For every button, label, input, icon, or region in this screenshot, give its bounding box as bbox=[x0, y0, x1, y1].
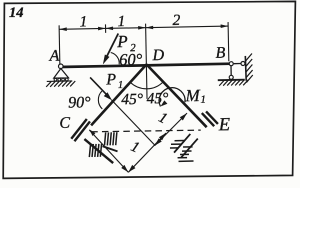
svg-text:60°: 60° bbox=[119, 50, 143, 69]
moment M1 arc bbox=[159, 87, 185, 106]
svg-text:B: B bbox=[215, 45, 225, 62]
dim arrow right at B tick bbox=[221, 24, 229, 28]
dim arrow right at D tick bbox=[138, 26, 146, 30]
svg-text:P: P bbox=[116, 32, 128, 51]
support B vertical link bbox=[230, 66, 232, 75]
svg-text:1: 1 bbox=[200, 94, 206, 106]
tick at P2 point bbox=[104, 24, 106, 32]
beam AB bbox=[59, 64, 231, 67]
support E wall slash 1 bbox=[202, 113, 214, 127]
extension line above/below D bbox=[146, 24, 147, 99]
90 degree arc bbox=[98, 91, 102, 109]
support C wall slash 1 bbox=[71, 119, 87, 139]
svg-text:45°: 45° bbox=[121, 91, 143, 108]
E hatch diagonal line 1 bbox=[174, 134, 191, 153]
45/45 arc below D bbox=[130, 82, 163, 90]
P1 line of action extension to V bbox=[111, 99, 155, 146]
svg-text:1: 1 bbox=[117, 13, 125, 30]
svg-text:90°: 90° bbox=[68, 94, 91, 111]
svg-text:C: C bbox=[59, 115, 70, 132]
wall at B bbox=[244, 56, 247, 81]
dashed line C to E bbox=[91, 130, 200, 133]
C hatch vertical ticks group1 bbox=[104, 132, 117, 145]
support E wall slash 2 bbox=[206, 111, 218, 124]
support B: pin circle at beam end bbox=[229, 62, 233, 66]
support A roller dots bbox=[54, 78, 57, 81]
svg-text:M: M bbox=[184, 86, 200, 105]
C hatch thick diagonal bbox=[84, 139, 113, 164]
force P1 arrow bbox=[90, 77, 106, 95]
svg-text:45°: 45° bbox=[146, 90, 168, 107]
dim arrow left at D tick bbox=[146, 26, 154, 30]
diag dim line S to NE bbox=[128, 133, 167, 172]
support B horizontal link bbox=[234, 63, 241, 65]
svg-text:E: E bbox=[218, 115, 231, 135]
diag dim line V to rod DE bbox=[154, 113, 188, 146]
support C wall slash 2 bbox=[74, 121, 90, 141]
support A hatching bbox=[46, 81, 75, 87]
svg-text:1: 1 bbox=[79, 13, 87, 30]
60 degree arc bbox=[111, 52, 120, 64]
dim arrow left at A bbox=[59, 27, 67, 31]
svg-text:P: P bbox=[105, 71, 116, 88]
svg-text:1: 1 bbox=[118, 80, 123, 91]
dim arrow right at P2 tick bbox=[98, 27, 106, 31]
support A ground line bbox=[47, 80, 72, 82]
rod DE bbox=[146, 63, 206, 128]
C hatch underline short bbox=[103, 146, 118, 152]
E hatch horizontal ticks bbox=[170, 140, 194, 161]
svg-text:A: A bbox=[48, 48, 59, 65]
svg-text:D: D bbox=[151, 47, 164, 64]
C hatch vertical ticks group2 bbox=[89, 144, 102, 157]
border frame bbox=[3, 1, 295, 178]
svg-text:2: 2 bbox=[172, 12, 180, 29]
support A triangle bbox=[54, 68, 69, 78]
svg-text:14: 14 bbox=[9, 5, 24, 21]
pin support A: circle bbox=[58, 64, 63, 69]
wall hatching bbox=[245, 54, 252, 83]
E hatch diagonal line 2 bbox=[181, 139, 199, 158]
dim arrow left at P2 tick bbox=[106, 26, 114, 30]
ground hatching under B bbox=[219, 80, 248, 86]
extension line above B bbox=[227, 22, 230, 61]
force P2 arrow bbox=[107, 33, 119, 56]
extension line above A bbox=[58, 25, 61, 64]
diag dim line C to S bbox=[89, 129, 128, 173]
rod DC bbox=[90, 64, 148, 125]
dimension line top bbox=[59, 26, 228, 29]
ground line under B bbox=[218, 79, 245, 82]
